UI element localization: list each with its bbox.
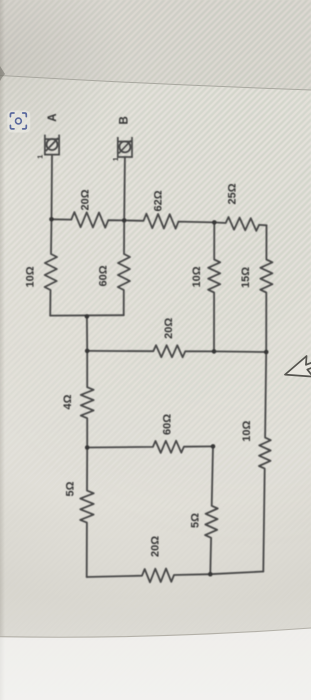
junction node at row3 left xyxy=(85,349,90,354)
resistor 10Ω (left column A) xyxy=(45,219,57,315)
resistor 5Ω (middle-left column lower) xyxy=(80,448,94,578)
wire terminal A to node nA1 xyxy=(51,155,54,220)
resistor 10Ω (right column lower) xyxy=(259,352,271,572)
top page-edge line xyxy=(0,76,311,91)
junction node at A column / top row xyxy=(49,217,54,222)
resistor 62Ω (top row) xyxy=(124,214,214,229)
resistor 20Ω (bottom row) xyxy=(87,569,211,583)
resistor 60Ω (column B) xyxy=(118,220,130,315)
junction node at column3 / row3 xyxy=(212,349,217,354)
wire terminal B to node nB1 xyxy=(123,157,126,220)
resistor 10Ω (column 3 upper) xyxy=(208,222,220,351)
wire bottom row right segment xyxy=(210,572,263,575)
resistor 20Ω (row 3) xyxy=(87,345,214,357)
junction node on row2 middle xyxy=(85,314,90,319)
terminal A (port symbol) xyxy=(45,135,59,155)
resistor 25Ω (top row right) xyxy=(214,217,266,231)
terminal B (port symbol) xyxy=(118,137,132,157)
junction node at row4 left xyxy=(85,445,90,450)
resistor 15Ω (right column upper) xyxy=(260,225,272,352)
dark smudge at left end of page edge xyxy=(0,66,5,81)
mouse cursor (arrow pointer, rotated) xyxy=(285,355,317,377)
bottom page-edge highlight area xyxy=(0,628,311,700)
resistor 5Ω (column 3 lower) xyxy=(205,446,218,574)
junction node at B column / top row xyxy=(122,218,127,223)
wire row3 right segment xyxy=(214,350,266,353)
junction node at column3 / bottom row xyxy=(208,572,213,577)
junction node at column 3 / top row xyxy=(212,220,217,225)
screenshot/focus tool icon (blue) xyxy=(7,111,30,133)
junction node at column3 / row4 xyxy=(211,444,216,449)
shading above top page edge xyxy=(0,0,311,90)
resistor 60Ω (row 4) xyxy=(87,441,213,453)
junction node at right column / row3 xyxy=(264,350,269,355)
wire stub row2 junction down to row3 xyxy=(86,316,88,351)
resistor 20Ω (top row, A-B) xyxy=(52,212,125,228)
wire row2 (bottom of A/B columns) xyxy=(50,314,124,316)
resistor 4Ω (middle-left column) xyxy=(81,351,94,448)
bottom page-edge line xyxy=(0,628,311,637)
